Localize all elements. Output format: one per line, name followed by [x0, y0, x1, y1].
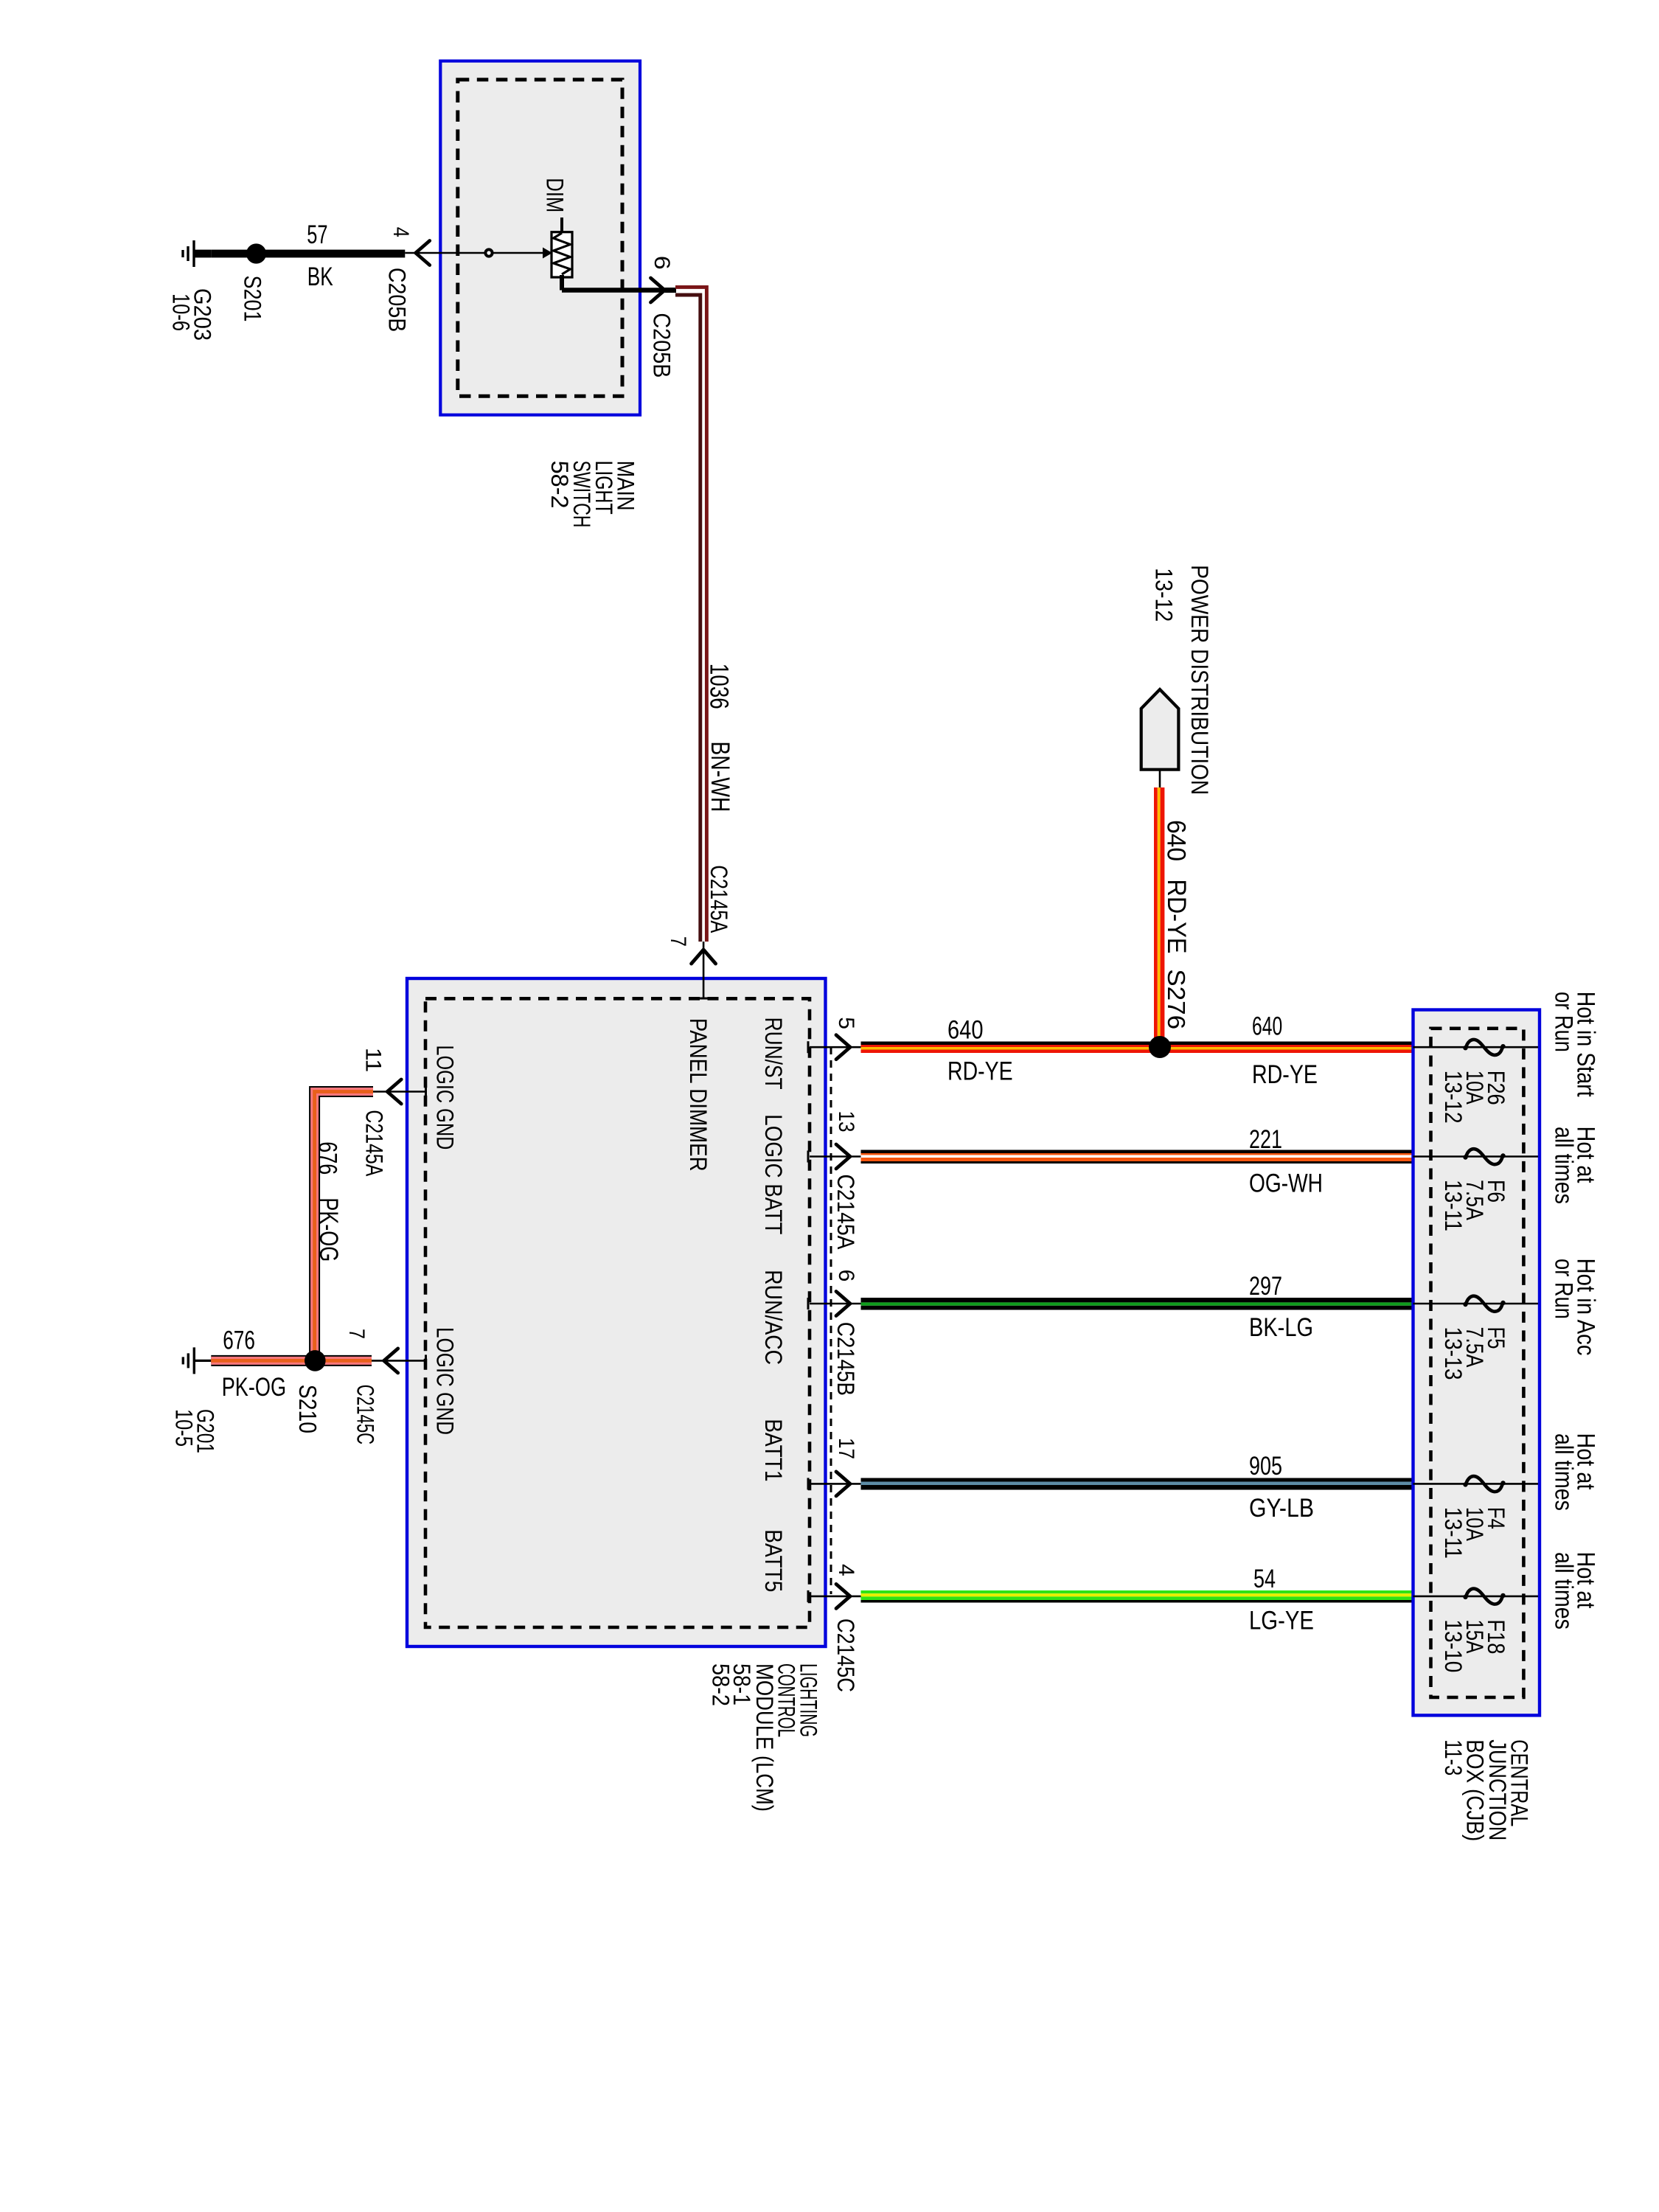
- svg-text:C2145A: C2145A: [832, 1175, 859, 1250]
- svg-text:C2145C: C2145C: [352, 1385, 379, 1444]
- svg-text:RUN/ACC: RUN/ACC: [760, 1270, 787, 1365]
- svg-text:POWER DISTRIBUTION: POWER DISTRIBUTION: [1186, 565, 1213, 795]
- LCM pin 5 stub and arrow: [810, 1046, 861, 1048]
- svg-text:LOGIC GND: LOGIC GND: [431, 1327, 458, 1435]
- svg-text:RD-YE: RD-YE: [947, 1057, 1013, 1086]
- svg-text:S210: S210: [294, 1385, 321, 1433]
- svg-text:BATT1: BATT1: [760, 1419, 787, 1481]
- svg-text:640: 640: [947, 1016, 984, 1045]
- wire 676 PK-OG: pin 11 to S210: [315, 1092, 373, 1361]
- svg-text:PK-OG: PK-OG: [314, 1197, 343, 1262]
- svg-text:DIM: DIM: [541, 178, 568, 212]
- svg-text:6: 6: [650, 256, 674, 270]
- svg-text:640: 640: [1252, 1012, 1282, 1041]
- svg-text:C2145B: C2145B: [832, 1322, 859, 1396]
- wire 676 PK-OG: G201 to S210: [211, 1355, 372, 1366]
- svg-text:17: 17: [834, 1438, 858, 1459]
- svg-text:4: 4: [389, 227, 413, 237]
- svg-text:PANEL DIMMER: PANEL DIMMER: [685, 1018, 712, 1172]
- svg-text:S201: S201: [239, 276, 265, 322]
- svg-text:13-10: 13-10: [1440, 1619, 1467, 1672]
- connector C205B pin 6 arrow: [651, 278, 665, 302]
- svg-text:LOGIC GND: LOGIC GND: [431, 1045, 458, 1150]
- svg-text:10-5: 10-5: [171, 1409, 198, 1447]
- CJB fuse F5 row: [1413, 1303, 1539, 1305]
- splice S276 dot: [1149, 1036, 1171, 1058]
- svg-text:or Run: or Run: [1550, 1259, 1578, 1319]
- LCM inner dashed box: [425, 998, 810, 1627]
- main light switch box: [440, 61, 640, 415]
- CJB fuse F4 row: [1413, 1483, 1539, 1485]
- power distribution arrow symbol: [1141, 689, 1179, 770]
- svg-text:all times: all times: [1550, 1127, 1578, 1204]
- svg-text:RD-YE: RD-YE: [1162, 879, 1191, 953]
- svg-text:221: 221: [1249, 1125, 1282, 1154]
- svg-text:58-2: 58-2: [546, 461, 573, 509]
- junction ring on dimmer wiper wire: [485, 249, 492, 256]
- wire 54 LG-YE: LCM pin 4 to CJB F18: [861, 1590, 1413, 1593]
- wiper arrowhead into rheostat: [543, 248, 552, 259]
- main light switch inner dashed box: [458, 80, 622, 396]
- LCM pin 17 stub and arrow: [810, 1483, 861, 1485]
- CJB fuse F26 row: [1413, 1046, 1539, 1048]
- svg-text:C2145A: C2145A: [361, 1110, 387, 1176]
- CJB fuse F18 row: [1413, 1596, 1539, 1598]
- LCM pin 7 stub and arrow: [372, 1360, 426, 1362]
- wire 297 BK-LG: LCM pin 6 to CJB F5: [861, 1298, 1413, 1302]
- svg-text:297: 297: [1249, 1272, 1282, 1301]
- svg-text:7: 7: [344, 1329, 369, 1339]
- svg-text:57: 57: [307, 220, 327, 249]
- svg-text:7: 7: [666, 936, 690, 947]
- wire 1036 BN-WH maroon: C205B-6 to C2145A-7: [675, 287, 706, 942]
- svg-text:5: 5: [834, 1017, 858, 1029]
- splice S210: [305, 1350, 326, 1371]
- svg-text:4: 4: [834, 1564, 858, 1576]
- dimmer rheostat DIM: [552, 232, 572, 277]
- svg-text:C2145A: C2145A: [706, 865, 732, 933]
- LCM connector dashed bracket: [830, 1047, 832, 1594]
- svg-text:or Run: or Run: [1550, 992, 1578, 1052]
- lighting control module box: [407, 978, 826, 1646]
- svg-text:LOGIC BATT: LOGIC BATT: [760, 1114, 787, 1234]
- svg-text:C2145C: C2145C: [832, 1618, 859, 1692]
- wire 221 OG-WH: LCM pin 13 to CJB F6: [861, 1150, 1413, 1154]
- svg-text:54: 54: [1253, 1565, 1276, 1593]
- LCM pin 11 stub and arrow: [372, 1091, 426, 1093]
- wire 57 BK thick black: G203 to C205B pin 4: [194, 250, 211, 258]
- svg-text:RD-YE: RD-YE: [1252, 1060, 1318, 1089]
- svg-text:13: 13: [834, 1111, 858, 1133]
- svg-text:11: 11: [361, 1048, 385, 1073]
- wire 640 RD-YE vertical from power distribution: [1159, 770, 1161, 787]
- LCM pin 13 stub and arrow: [810, 1155, 861, 1158]
- ground G201 symbol: [194, 1360, 211, 1362]
- svg-text:GY-LB: GY-LB: [1249, 1494, 1314, 1523]
- svg-text:13-11: 13-11: [1440, 1507, 1467, 1559]
- svg-text:58-2: 58-2: [707, 1663, 734, 1706]
- connector C205B pin 4 arrow: [416, 241, 430, 265]
- svg-text:RUN/ST: RUN/ST: [760, 1018, 787, 1090]
- ground G203 symbol: [194, 252, 211, 254]
- svg-text:640: 640: [1162, 820, 1191, 861]
- svg-text:1036: 1036: [705, 664, 734, 709]
- svg-text:905: 905: [1249, 1452, 1282, 1481]
- svg-text:13-11: 13-11: [1440, 1180, 1467, 1231]
- svg-text:13-12: 13-12: [1150, 568, 1177, 622]
- svg-text:13-13: 13-13: [1440, 1327, 1467, 1380]
- svg-text:LG-YE: LG-YE: [1249, 1607, 1314, 1635]
- svg-text:PK-OG: PK-OG: [222, 1373, 286, 1402]
- wire from rheostat to pin 6: [560, 275, 564, 291]
- svg-text:S276: S276: [1163, 969, 1190, 1029]
- svg-text:all times: all times: [1550, 1552, 1578, 1630]
- svg-text:BK: BK: [307, 262, 333, 291]
- LCM pin 4 stub and arrow: [810, 1596, 861, 1598]
- thin wire into main light switch: [405, 252, 552, 254]
- central junction box: [1413, 1010, 1540, 1716]
- svg-text:BK-LG: BK-LG: [1249, 1313, 1313, 1342]
- svg-text:all times: all times: [1550, 1433, 1578, 1511]
- CJB fuse F6 row: [1413, 1155, 1539, 1158]
- svg-text:OG-WH: OG-WH: [1249, 1169, 1323, 1198]
- svg-text:11-3: 11-3: [1440, 1739, 1467, 1775]
- wire 640 RD-YE: LCM pin 5 to CJB F26: [861, 1042, 1413, 1046]
- svg-text:BN-WH: BN-WH: [706, 741, 734, 812]
- svg-text:13-12: 13-12: [1440, 1071, 1467, 1124]
- svg-text:C205B: C205B: [649, 313, 675, 378]
- svg-text:676: 676: [313, 1141, 341, 1175]
- CJB inner dashed box: [1431, 1029, 1524, 1697]
- wire 905 GY-LB: LCM pin 17 to CJB F4: [861, 1478, 1413, 1482]
- svg-text:6: 6: [834, 1270, 858, 1282]
- connector C2145A pin 7 arrow into LCM: [703, 942, 705, 998]
- splice S201: [246, 243, 266, 263]
- LCM pin 6 stub and arrow: [810, 1303, 861, 1305]
- svg-text:676: 676: [223, 1326, 255, 1355]
- svg-text:10-6: 10-6: [167, 293, 194, 331]
- svg-text:BATT5: BATT5: [760, 1529, 787, 1592]
- svg-text:C205B: C205B: [384, 268, 411, 332]
